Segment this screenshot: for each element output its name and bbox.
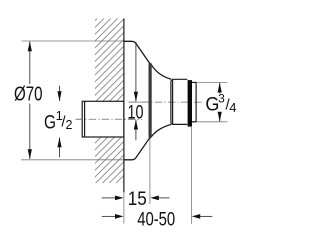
svg-text:15: 15	[128, 189, 147, 210]
svg-text:2: 2	[66, 118, 73, 132]
svg-text:10: 10	[128, 102, 144, 123]
svg-text:G: G	[44, 113, 56, 134]
svg-text:40-50: 40-50	[137, 209, 175, 231]
svg-text:Ø70: Ø70	[14, 84, 43, 106]
svg-text:4: 4	[229, 100, 236, 115]
svg-text:3: 3	[218, 91, 225, 105]
